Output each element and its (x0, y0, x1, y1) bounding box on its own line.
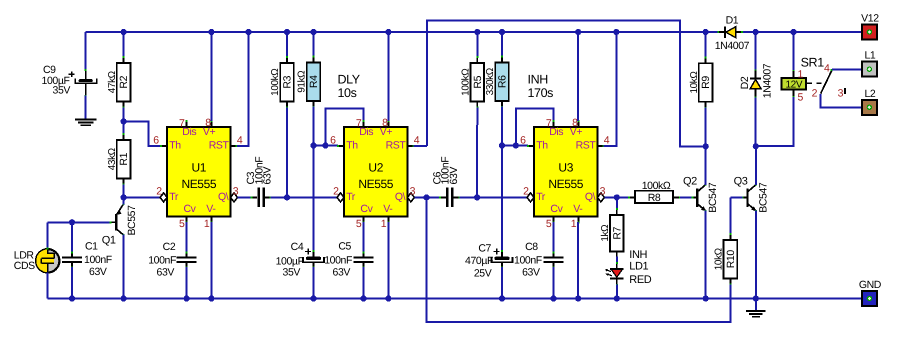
svg-text:6: 6 (330, 135, 336, 147)
LED LD1 (616, 264, 618, 270)
svg-text:Th: Th (536, 139, 548, 151)
wire U3 Dis loop (516, 108, 554, 145)
node R4 top (310, 29, 316, 35)
svg-text:91kΩ: 91kΩ (297, 70, 308, 93)
capacitor C2 (186, 252, 188, 257)
svg-text:Q\: Q\ (218, 191, 229, 203)
op-amp-style IC U3 NE555 (534, 127, 598, 217)
wire U3 V- down (577, 222, 579, 299)
svg-text:C1: C1 (85, 241, 98, 253)
svg-text:NE555: NE555 (181, 177, 216, 191)
wire Tr node to U1 pin2 (124, 196, 161, 198)
wire C1 to ground (71, 267, 73, 299)
resistor R10 (724, 240, 738, 279)
wire Q3 emitter down (755, 210, 757, 298)
svg-text:4: 4 (414, 134, 420, 146)
svg-text:R4: R4 (308, 75, 320, 88)
svg-text:C8: C8 (525, 241, 538, 253)
wire contact2 to L2 (821, 94, 862, 107)
svg-text:1kΩ: 1kΩ (600, 224, 611, 242)
svg-text:100nF: 100nF (84, 254, 112, 266)
node R5 top (474, 29, 480, 35)
svg-text:5: 5 (798, 91, 804, 103)
wire Q1 collector down (122, 234, 124, 298)
svg-text:100kΩ: 100kΩ (642, 180, 671, 192)
terminal V12 (862, 25, 877, 40)
wire rail to relay (793, 32, 795, 71)
resistor R6 (495, 63, 509, 102)
wire R7 to LED (616, 257, 618, 264)
node R2 top (121, 29, 127, 35)
svg-text:GND: GND (859, 279, 882, 291)
svg-text:63V: 63V (522, 266, 540, 278)
svg-text:43kΩ: 43kΩ (107, 147, 118, 170)
svg-text:2: 2 (156, 186, 162, 198)
wire R9 to Q2 collector (705, 108, 707, 147)
node U2 V- ground (385, 295, 391, 301)
svg-text:R6: R6 (497, 75, 509, 88)
node U1 trigger (121, 194, 127, 200)
wire rail to R2 (123, 32, 125, 58)
capacitor C9 (85, 70, 87, 79)
wire LDR top (47, 222, 49, 249)
svg-text:Dis: Dis (359, 126, 373, 138)
svg-text:100nF: 100nF (148, 255, 176, 267)
wire R1 to Tr node (123, 185, 125, 198)
wire U2 RST lead continues (414, 145, 427, 147)
node C8 ground (550, 295, 556, 301)
svg-text:Tr: Tr (346, 191, 356, 203)
transistor Q2 BC547 (696, 189, 698, 208)
capacitor C4 electrolytic (313, 251, 315, 257)
svg-text:C2: C2 (163, 241, 176, 253)
wire junction to R1 (123, 121, 125, 134)
svg-text:100nF: 100nF (514, 255, 542, 267)
svg-text:V-: V- (206, 203, 216, 215)
svg-text:6: 6 (153, 135, 159, 147)
capacitor C6 (440, 196, 446, 198)
svg-text:1: 1 (204, 218, 210, 230)
svg-text:Q\: Q\ (585, 191, 596, 203)
node R9 top (703, 29, 709, 35)
node U1 RST rail (245, 29, 251, 35)
node relay pin1 rail (790, 29, 796, 35)
capacitor C7 electrolytic (501, 251, 503, 257)
node U1 V- ground (208, 295, 214, 301)
wire R3 down to trigger wire (286, 108, 288, 198)
svg-text:R9: R9 (700, 76, 712, 89)
resistor R8 (629, 196, 635, 198)
resistor R7 (610, 215, 624, 252)
node C5 ground (360, 295, 366, 301)
svg-text:1N4007: 1N4007 (715, 40, 750, 52)
svg-text:3: 3 (600, 186, 606, 198)
wire R10 bottom crossing (729, 285, 731, 323)
svg-text:Dis: Dis (549, 126, 563, 138)
svg-text:4: 4 (237, 134, 243, 146)
wire Q3 collector up (755, 146, 757, 185)
diode D2 1N4007 (755, 69, 757, 71)
wire node to D1 (706, 31, 719, 33)
node U3 Th B (513, 142, 519, 148)
resistor R2 (117, 63, 131, 102)
svg-text:10kΩ: 10kΩ (689, 71, 700, 94)
wire C1 top lead (71, 222, 73, 253)
svg-text:3: 3 (838, 88, 844, 100)
svg-text:Tr: Tr (536, 191, 546, 203)
svg-text:1: 1 (571, 218, 577, 230)
svg-text:10s: 10s (338, 86, 357, 100)
svg-text:INH: INH (629, 249, 647, 261)
wire U2 V- down (387, 222, 389, 299)
svg-text:Cv: Cv (550, 203, 563, 215)
svg-text:Q1: Q1 (102, 234, 116, 246)
wire Q1 emitter up (122, 197, 124, 204)
svg-text:Dis: Dis (182, 126, 196, 138)
wire U2 output to R10 bottom run (427, 199, 731, 322)
svg-text:2: 2 (523, 186, 529, 198)
node relay low side (753, 143, 759, 149)
svg-text:35V: 35V (283, 267, 301, 279)
node D2 top (753, 29, 759, 35)
svg-text:INH: INH (528, 73, 549, 87)
wire relay pin5 to low node (756, 97, 794, 146)
transistor Q3 BC547 (746, 189, 748, 208)
wire U3 node to R8 (617, 196, 629, 198)
wire C9 top (85, 32, 87, 70)
wire C6 to node (459, 196, 477, 198)
svg-text:RST: RST (386, 139, 407, 151)
node Q1 collector ground (121, 295, 127, 301)
svg-text:100µF: 100µF (276, 255, 304, 267)
svg-text:RST: RST (209, 139, 230, 151)
wire node to U3 Tr (477, 196, 527, 198)
svg-text:3: 3 (233, 186, 239, 198)
svg-text:R7: R7 (611, 226, 623, 239)
svg-text:V+: V+ (380, 126, 393, 138)
svg-text:R3: R3 (282, 75, 294, 88)
node Q3 emitter ground (753, 295, 759, 301)
svg-text:470µF: 470µF (465, 255, 493, 267)
svg-text:2: 2 (333, 186, 339, 198)
op-amp-style IC U2 NE555 (344, 127, 408, 217)
resistor R1 (117, 140, 131, 179)
svg-text:100nF: 100nF (324, 255, 352, 267)
wire node to U2 Tr (287, 196, 337, 198)
wire base net (48, 221, 110, 223)
svg-text:Q3: Q3 (734, 175, 748, 187)
wire rail to D2 (755, 32, 757, 71)
svg-text:100kΩ: 100kΩ (461, 68, 472, 96)
wire U2 out node to C6 (427, 196, 440, 198)
wire rail to R3 (286, 32, 288, 58)
svg-text:63V: 63V (89, 266, 107, 278)
ground symbol right (755, 299, 757, 311)
svg-text:Th: Th (346, 139, 358, 151)
svg-text:Cv: Cv (360, 203, 373, 215)
wire ground rail (48, 298, 862, 300)
wire C7 to ground (501, 267, 503, 299)
svg-text:SR1: SR1 (801, 56, 825, 70)
wire junction to U1 Th (124, 121, 161, 146)
wire Th node down to C7 (501, 146, 503, 252)
node U2 output (423, 194, 429, 200)
svg-text:V-: V- (573, 203, 583, 215)
wire R6 to Th node (501, 107, 503, 146)
node C4 ground (310, 295, 316, 301)
node U2 V+ rail (385, 29, 391, 35)
svg-text:V-: V- (383, 203, 393, 215)
wire LED to ground (616, 285, 618, 299)
svg-text:D2: D2 (739, 76, 751, 89)
node U2 Th A (310, 142, 316, 148)
wire rail to R9 (705, 32, 707, 58)
wire U3 V+ to rail (577, 32, 579, 121)
wire rail to R6 (501, 32, 503, 57)
wire U3 out to node (604, 196, 616, 198)
svg-text:Tr: Tr (169, 191, 179, 203)
wire U2 out to node (414, 196, 426, 198)
wire Q3 base (730, 196, 742, 198)
svg-text:BC547: BC547 (757, 182, 769, 213)
capacitor C8 (553, 252, 555, 257)
node C1 ground (69, 295, 75, 301)
wire Th node to U2 (314, 145, 339, 147)
svg-text:Q2: Q2 (683, 175, 697, 187)
svg-text:D1: D1 (726, 15, 739, 27)
wire R2 to node (123, 108, 125, 122)
svg-text:5: 5 (546, 218, 552, 230)
svg-text:BC547: BC547 (707, 182, 719, 213)
wire C8 to ground (553, 267, 555, 299)
svg-text:5: 5 (356, 218, 362, 230)
wire +12V main rail (86, 31, 862, 33)
node R3 bottom (284, 194, 290, 200)
diode D1 1N4007 (718, 31, 720, 33)
svg-text:R5: R5 (472, 75, 484, 88)
wire U1 V+ to rail (210, 32, 212, 121)
svg-text:Th: Th (169, 139, 181, 151)
LDR photoresistor (36, 249, 59, 272)
svg-text:63V: 63V (448, 167, 460, 185)
terminal L2 (862, 100, 877, 115)
op-amp-style IC U1 NE555 (167, 127, 231, 217)
svg-text:RED: RED (629, 274, 651, 286)
svg-text:R2: R2 (118, 75, 130, 88)
resistor R5 (471, 63, 485, 102)
wire Th node down to C4 (313, 146, 315, 252)
wire C9 to ground (85, 96, 87, 120)
svg-text:C5: C5 (338, 240, 351, 252)
svg-text:RST: RST (576, 139, 597, 151)
svg-text:63V: 63V (157, 266, 175, 278)
node C1 top (69, 219, 75, 225)
wire LDR to ground rail (47, 273, 49, 299)
terminal GND (862, 291, 877, 306)
svg-text:V+: V+ (570, 126, 583, 138)
svg-text:C7: C7 (478, 243, 491, 255)
svg-text:4: 4 (824, 62, 830, 74)
svg-text:L2: L2 (864, 88, 875, 100)
wire C2 to ground (186, 267, 188, 299)
capacitor C5 (363, 252, 365, 257)
wire C3 to node (271, 196, 287, 198)
svg-text:L1: L1 (864, 50, 875, 62)
ground under C9 (75, 119, 97, 121)
node R3 top (284, 29, 290, 35)
node LED ground (614, 295, 620, 301)
wire rail to R5 (476, 32, 478, 58)
terminal L1 (862, 62, 877, 77)
svg-text:U3: U3 (558, 161, 573, 175)
svg-text:100kΩ: 100kΩ (270, 68, 281, 96)
svg-text:NE555: NE555 (548, 177, 583, 191)
node U2 Th B (322, 142, 328, 148)
svg-text:U1: U1 (192, 161, 207, 175)
wire top sub-rail (U2 RST to Q2 collector net) (427, 21, 704, 147)
svg-text:V12: V12 (861, 13, 879, 25)
wire U2 Dis loop (325, 108, 363, 145)
svg-text:DLY: DLY (338, 73, 361, 87)
svg-text:NE555: NE555 (358, 177, 393, 191)
svg-text:LD1: LD1 (629, 261, 648, 273)
wire rail to R4 (313, 32, 315, 57)
wire U1 out to C3 (238, 196, 252, 198)
node U3 Th A (499, 142, 505, 148)
node C7 ground (499, 295, 505, 301)
node U3 V+ rail (575, 29, 581, 35)
svg-text:Cv: Cv (184, 203, 197, 215)
wire U2 V+ to rail (387, 32, 389, 121)
node C2 ground (184, 295, 190, 301)
svg-text:U2: U2 (368, 161, 383, 175)
svg-text:25V: 25V (474, 268, 492, 280)
node Q2 emitter ground (703, 295, 709, 301)
resistor R3 (280, 63, 294, 102)
wire contact4 to L1 (832, 68, 862, 70)
wire C5 to ground (363, 267, 365, 299)
node R1 R2 junction (121, 118, 127, 124)
wire U3 Cv down (553, 222, 555, 253)
svg-text:1N4007: 1N4007 (761, 63, 773, 98)
svg-text:5: 5 (179, 218, 185, 230)
wire Th node to U3 (502, 145, 528, 147)
wire U1 V- down (210, 222, 212, 299)
relay SR1 coil (793, 70, 795, 72)
svg-text:6: 6 (520, 135, 526, 147)
svg-text:63V: 63V (333, 266, 351, 278)
wire U2 Cv down (363, 222, 365, 253)
svg-text:10kΩ: 10kΩ (714, 247, 725, 270)
svg-text:BC557: BC557 (126, 205, 138, 236)
node U3 RST rail (613, 29, 619, 35)
transistor Q1 BC557 (115, 214, 117, 231)
svg-text:4: 4 (604, 134, 610, 146)
wire C4 to ground (313, 267, 315, 299)
svg-text:CDS: CDS (14, 260, 35, 272)
resistor R9 (699, 63, 713, 102)
wire Q2 collector up (705, 146, 707, 185)
svg-text:R8: R8 (648, 192, 661, 204)
svg-text:63V: 63V (262, 167, 274, 185)
wire node to R7 (616, 197, 618, 209)
capacitor C1 (71, 252, 73, 257)
node R5 bottom (474, 194, 480, 200)
svg-text:Q\: Q\ (395, 191, 406, 203)
node U3 V- ground (575, 295, 581, 301)
svg-text:V+: V+ (203, 126, 216, 138)
relay SR1 contacts (807, 82, 812, 84)
svg-text:1: 1 (798, 68, 804, 80)
svg-text:47kΩ: 47kΩ (107, 70, 118, 93)
wire R4 to Th node (313, 107, 315, 146)
svg-text:R10: R10 (725, 250, 737, 269)
svg-text:35V: 35V (53, 85, 71, 97)
svg-text:1: 1 (381, 218, 387, 230)
capacitor C3 (251, 196, 257, 198)
svg-text:170s: 170s (528, 86, 554, 100)
resistor R4 (307, 63, 321, 102)
svg-text:R1: R1 (118, 152, 130, 165)
wire base down to R10 (729, 197, 731, 234)
wire D2 to node (755, 97, 757, 146)
svg-text:330kΩ: 330kΩ (485, 67, 496, 95)
node R6 top (499, 29, 505, 35)
svg-text:12V: 12V (786, 80, 803, 91)
svg-text:C4: C4 (291, 241, 304, 253)
wire U1 Cv down (186, 222, 188, 253)
node U1 V+ rail (208, 29, 214, 35)
wire U3 RST up (604, 32, 617, 146)
wire R5 down (476, 108, 478, 198)
node Q2 collector (703, 143, 709, 149)
wire U1 RST up (237, 32, 249, 146)
wire Q2 emitter down (705, 210, 707, 298)
node U3 output (614, 194, 620, 200)
svg-text:2: 2 (812, 88, 818, 100)
wire R8 to Q2 base (680, 196, 693, 198)
svg-text:3: 3 (410, 186, 416, 198)
